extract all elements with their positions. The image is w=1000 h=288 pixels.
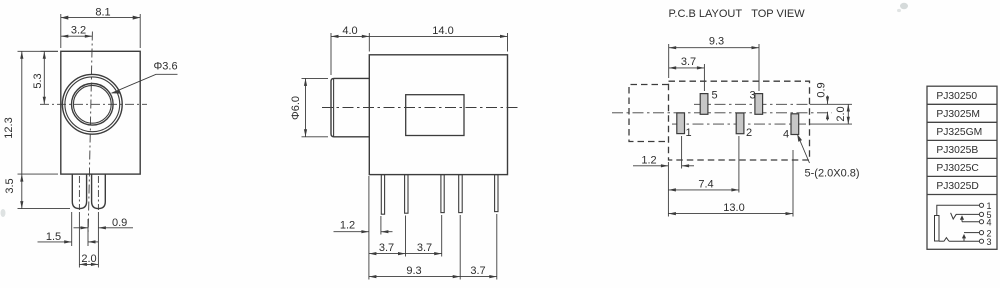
pad 5 [700,94,708,115]
dim 3.7 second line [406,253,442,255]
dim 3.7 pcb line [669,67,705,69]
svg-text:Φ6.0: Φ6.0 [290,96,302,120]
contact 4 riser [961,219,963,222]
barrel lip line [333,79,335,137]
ext line pinA left [380,216,382,235]
wire terminal 5 [956,213,979,215]
dim 3.7 first line [369,253,406,255]
ext line pinD [459,215,461,280]
pad 4 [791,114,799,135]
svg-text:4: 4 [987,218,992,228]
dim dia6.0 line [305,78,307,136]
footprint outline dashed [669,81,810,160]
svg-text:14.0: 14.0 [432,25,453,37]
ext lines 5.3 [41,50,59,52]
contact 2 riser [963,237,965,241]
ext line rect left down [667,162,669,217]
ext line top 12.3 [18,50,59,52]
side centerline [322,107,518,109]
dim 3.5 arrows [20,174,23,182]
svg-text:4: 4 [783,128,789,140]
ext line 1.5 [71,212,73,246]
ext line 3.5 [18,173,59,175]
label dia 3.6 leader [112,74,178,93]
svg-text:3.7: 3.7 [681,56,696,68]
wire terminal 3 [949,240,979,242]
dim 0.9 lower arrow [88,241,98,243]
svg-text:2.0: 2.0 [81,253,96,265]
horizontal centerline [40,103,147,105]
svg-text:PJ3025B: PJ3025B [936,145,978,156]
pin2 centerline [97,176,99,210]
contact 4 arrow [960,215,964,220]
lower row centerline pcb [672,123,810,125]
table row line 6 [927,194,997,196]
jack nose circle ring2 [65,77,120,132]
wire terminal 2 [964,232,979,234]
svg-text:3.2: 3.2 [71,25,86,37]
ext line pad1 center down [681,136,683,169]
svg-text:1: 1 [686,127,692,139]
dim 9.3 line (side) [369,276,460,278]
svg-text:3.7: 3.7 [417,242,432,254]
dim 3.2 line [61,35,93,37]
pin A [381,175,384,215]
svg-text:3: 3 [750,90,756,102]
terminal 4 circle [979,220,983,224]
dim 0.9 pcb arrows [827,96,829,105]
ext line 0.9 left [87,219,89,246]
dim 1.2 pcb line [633,165,668,167]
vertical centerline [88,32,92,232]
tip contact V [951,213,957,219]
svg-text:12.3: 12.3 [3,117,15,138]
pad 2 [736,113,744,134]
jack nose circle outer [62,74,122,134]
dim 1.2 line (side) [334,231,369,233]
ext line pad2 center down [738,136,740,193]
svg-text:3.7: 3.7 [379,242,394,254]
pin right (front) [92,174,106,209]
ring contact caret [944,238,949,242]
dim 14.0 line [369,35,507,37]
ext line pinE [496,214,498,280]
barrel footprint dashed tab [629,85,669,142]
dim 2.0 pcb line [847,104,849,124]
dim 8.1 line [61,17,140,19]
terminal 3 circle [979,239,983,243]
svg-text:Φ3.6: Φ3.6 [154,61,178,73]
svg-text:PJ3025M: PJ3025M [936,109,980,120]
dim 5.3 line [43,51,45,104]
svg-text:0.9: 0.9 [112,217,127,229]
wire terminal 4 [962,221,979,223]
svg-text:3: 3 [987,237,992,247]
dim 2.0 line [79,263,98,265]
ext line body left bottom [368,176,370,280]
ext line rect left up [668,44,670,78]
table outer border [927,86,997,249]
pad 1 [677,113,685,134]
svg-text:2: 2 [746,127,752,139]
pad size leader [798,136,810,164]
svg-text:PJ30250: PJ30250 [936,91,977,102]
inner recess rect [406,95,464,136]
dim 13.0 line [668,213,793,215]
main centerline pcb [612,112,832,114]
table row line 3 [927,139,997,141]
svg-text:9.3: 9.3 [709,36,724,48]
svg-text:8.1: 8.1 [95,6,110,18]
ext line pad3 center up [758,44,760,91]
svg-text:PJ3025C: PJ3025C [936,163,979,174]
terminal 2 circle [979,231,983,235]
jack hole circle inner [73,85,111,123]
svg-text:1.2: 1.2 [340,220,355,232]
ext line bottom 12.3 [18,208,71,210]
ext lines 8.1 [60,14,62,48]
ext lines top [330,33,332,75]
dim 0.9 arrows [74,227,89,229]
dim 12.3 line [21,51,23,208]
body outline front [61,51,140,174]
svg-text:1.2: 1.2 [641,155,656,167]
svg-text:3.7: 3.7 [470,265,485,277]
terminal 5 circle [979,212,983,216]
table row line 5 [927,175,997,177]
pin left (front) [72,174,86,209]
ext line pin2 center [97,212,99,268]
pin E [495,175,498,212]
svg-text:PJ325GM: PJ325GM [936,127,982,138]
contact 2 arrow [962,234,966,239]
svg-text:PJ3025D: PJ3025D [936,181,978,192]
dim 7.4 line [668,189,739,191]
svg-text:7.4: 7.4 [698,179,713,191]
dim 3.7 third line [460,276,497,278]
svg-text:9.3: 9.3 [406,265,421,277]
pin C [441,175,444,213]
svg-text:1.5: 1.5 [46,231,61,243]
svg-text:4.0: 4.0 [342,25,357,37]
svg-text:3.5: 3.5 [4,178,16,193]
pad 3 [755,94,763,115]
pin B [405,175,408,214]
ext line pinC [441,215,443,257]
dim 9.3 pcb line [669,47,759,49]
ext line pad4 center down [792,150,794,217]
barrel outline [331,78,369,136]
pin D [459,175,463,213]
table row line 4 [927,157,997,159]
wire caret to sleeve [939,240,944,242]
sleeve contact rect [935,216,940,242]
dim 4.0 line [331,35,369,37]
svg-text:5-(2.0X0.8): 5-(2.0X0.8) [805,168,860,180]
wire terminal 1 to sleeve [937,205,980,215]
svg-text:2.0: 2.0 [835,106,847,121]
svg-text:5.3: 5.3 [32,73,44,88]
svg-text:13.0: 13.0 [723,202,744,214]
terminal 1 circle [979,203,983,207]
dim 1.5 line [38,241,72,243]
ext lines dia6.0 [302,77,329,79]
svg-text:5: 5 [712,90,718,102]
pin1 centerline [78,176,80,210]
ext line pad5 center up [703,64,705,91]
table row line 1 [927,103,997,105]
body outline side [369,55,507,175]
ext line pinB [405,216,407,257]
table row line 2 [927,121,997,123]
svg-text:0.9: 0.9 [815,82,827,97]
jack hole circle outer [72,84,114,126]
scan smudge artifact [1,3,909,217]
upper row centerline pcb [694,103,810,105]
ext line pin1 center [78,212,80,268]
svg-text:P.C.B LAYOUT TOP VIEW: P.C.B LAYOUT TOP VIEW [669,8,806,20]
